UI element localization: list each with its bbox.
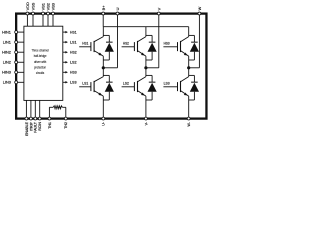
svg-text:LIN1: LIN1 bbox=[3, 41, 11, 45]
svg-text:HS2: HS2 bbox=[123, 42, 129, 46]
pin LIN3 bbox=[3, 81, 24, 85]
svg-text:RCIN: RCIN bbox=[38, 122, 42, 131]
svg-text:V: V bbox=[156, 7, 161, 10]
svg-text:FAULT: FAULT bbox=[34, 121, 38, 132]
pin HIN1 bbox=[2, 30, 24, 34]
transistor HS3 (IGBT) bbox=[163, 27, 188, 68]
svg-text:LS3: LS3 bbox=[164, 82, 170, 86]
diode D2 (freewheeling, anti-parallel with HS2) bbox=[146, 35, 157, 60]
transistor LS3 (IGBT) bbox=[163, 68, 188, 118]
node phase W midpoint junction bbox=[187, 66, 190, 69]
svg-text:ITRIP: ITRIP bbox=[29, 121, 33, 131]
svg-text:VDD: VDD bbox=[25, 2, 30, 10]
svg-text:protection: protection bbox=[34, 66, 46, 70]
svg-text:ENABLE: ENABLE bbox=[25, 121, 29, 135]
wire phase W output to top pin bbox=[189, 67, 200, 69]
svg-text:LS2: LS2 bbox=[70, 60, 77, 65]
svg-text:LS2: LS2 bbox=[123, 82, 129, 86]
pin LIN2 bbox=[3, 61, 24, 65]
svg-text:HS3: HS3 bbox=[70, 70, 77, 75]
driver IC block U1 bbox=[24, 26, 63, 100]
svg-text:HS3: HS3 bbox=[164, 42, 170, 46]
diode D5 (freewheeling, anti-parallel with LS2) bbox=[146, 75, 157, 100]
pin HIN2 bbox=[2, 51, 24, 55]
pin VB1 bbox=[41, 3, 46, 26]
transistor HS1 (IGBT) bbox=[79, 27, 103, 68]
svg-text:LS1: LS1 bbox=[70, 40, 77, 45]
pin ITRIP bbox=[29, 100, 33, 131]
svg-text:U-: U- bbox=[102, 121, 106, 126]
svg-text:driver with: driver with bbox=[34, 60, 46, 64]
svg-text:HS1: HS1 bbox=[70, 30, 77, 35]
pin ENABLE bbox=[25, 100, 29, 136]
svg-text:circuits: circuits bbox=[36, 71, 45, 75]
pin U- (low side emitter) bbox=[102, 117, 106, 126]
svg-text:half-bridge: half-bridge bbox=[34, 54, 47, 58]
driver output HS2 (arrow) bbox=[63, 50, 77, 55]
svg-text:VB3: VB3 bbox=[51, 3, 56, 10]
diode D1 (freewheeling, anti-parallel with HS1) bbox=[103, 35, 114, 60]
module outline (power module boundary) bbox=[16, 14, 206, 119]
diode D3 (freewheeling, anti-parallel with HS3) bbox=[189, 35, 199, 60]
svg-text:HIN2: HIN2 bbox=[2, 51, 11, 55]
pin VSS bbox=[31, 2, 36, 26]
driver block label text bbox=[32, 48, 49, 75]
svg-text:VSS: VSS bbox=[31, 2, 36, 10]
node phase V midpoint junction bbox=[144, 66, 147, 69]
pin RCIN bbox=[38, 100, 42, 130]
transistor LS1 (IGBT) bbox=[79, 68, 103, 118]
pin TH2 bbox=[64, 117, 68, 129]
svg-text:TH2: TH2 bbox=[64, 122, 68, 129]
node phase U midpoint junction bbox=[102, 66, 105, 69]
wire phase V output to top pin bbox=[146, 67, 159, 69]
pin HIN3 bbox=[2, 71, 24, 75]
svg-text:LIN2: LIN2 bbox=[3, 61, 11, 65]
svg-text:W-: W- bbox=[187, 121, 191, 126]
svg-text:HS2: HS2 bbox=[70, 50, 77, 55]
driver output HS1 (arrow) bbox=[63, 30, 77, 35]
diode D4 (freewheeling, anti-parallel with LS1) bbox=[103, 75, 114, 100]
svg-text:LS1: LS1 bbox=[82, 82, 88, 86]
svg-text:HIN3: HIN3 bbox=[2, 71, 11, 75]
pin V- (low side emitter) bbox=[144, 117, 148, 125]
driver output HS3 (arrow) bbox=[63, 70, 77, 75]
svg-text:Three channel: Three channel bbox=[32, 48, 49, 52]
pin W bbox=[197, 6, 202, 67]
transistor LS2 (IGBT) bbox=[122, 68, 146, 118]
pin LIN1 bbox=[3, 41, 24, 45]
driver output LS3 (arrow) bbox=[63, 80, 77, 85]
pin VB3 bbox=[51, 3, 56, 26]
svg-text:HS1: HS1 bbox=[82, 42, 88, 46]
pin VDD bbox=[25, 2, 30, 26]
pin W- (low side emitter) bbox=[187, 117, 191, 126]
transistor HS2 (IGBT) bbox=[122, 27, 146, 68]
pin U bbox=[115, 7, 120, 67]
DC+ collector bus wire bbox=[103, 26, 188, 28]
svg-text:LIN3: LIN3 bbox=[3, 81, 11, 85]
diode D6 (freewheeling, anti-parallel with LS3) bbox=[189, 75, 199, 100]
pin B+ bbox=[101, 5, 106, 27]
svg-text:V-: V- bbox=[144, 121, 148, 125]
svg-text:W: W bbox=[197, 6, 202, 10]
thermistor RT1 (NTC) bbox=[49, 106, 65, 118]
svg-text:TH1: TH1 bbox=[48, 122, 52, 129]
svg-text:HIN1: HIN1 bbox=[2, 30, 11, 34]
pin TH1 bbox=[48, 117, 52, 129]
driver output LS2 (arrow) bbox=[63, 60, 77, 65]
wire phase U output to top pin bbox=[103, 67, 117, 69]
svg-text:LS3: LS3 bbox=[70, 80, 77, 85]
driver output LS1 (arrow) bbox=[63, 40, 77, 45]
svg-text:U: U bbox=[115, 7, 120, 10]
pin VB2 bbox=[46, 3, 51, 26]
svg-text:B+: B+ bbox=[101, 5, 106, 11]
pin V bbox=[156, 7, 161, 67]
pin FAULT bbox=[34, 100, 38, 132]
